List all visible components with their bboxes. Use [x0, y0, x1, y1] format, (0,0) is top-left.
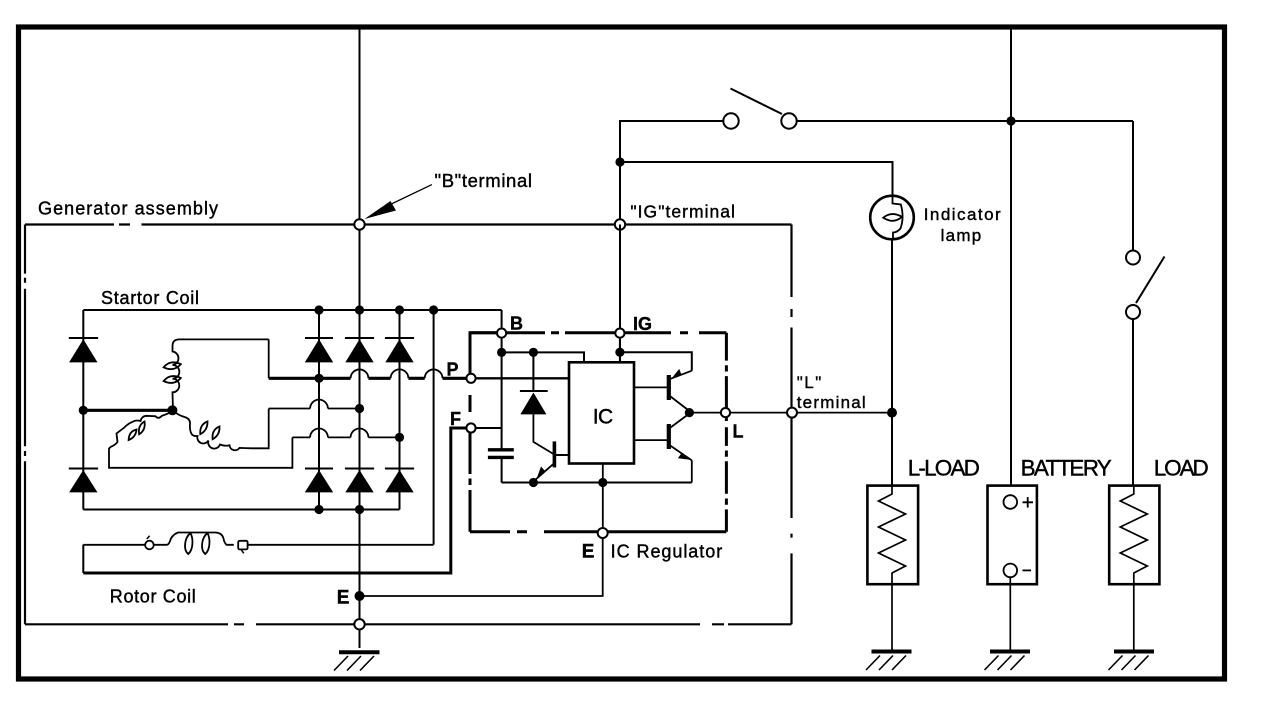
- node IG regulator: [615, 329, 624, 338]
- junction P line: [314, 374, 323, 383]
- wire IG internal drop: [619, 333, 621, 362]
- IG terminal: [615, 219, 625, 229]
- junction IG rail: [615, 348, 624, 357]
- B terminal: [354, 219, 364, 229]
- svg-text:Generator assembly: Generator assembly: [38, 199, 218, 219]
- junction B rail: [497, 348, 506, 357]
- star wire: [83, 409, 172, 412]
- wire lamp feed: [620, 162, 893, 196]
- diode D7: [385, 338, 414, 362]
- LOAD box: [1109, 486, 1159, 585]
- generator assembly box: [25, 225, 792, 625]
- svg-text:"B"terminal: "B"terminal: [435, 170, 533, 191]
- svg-text:L-LOAD: L-LOAD: [908, 456, 980, 481]
- junction bus node 2: [355, 305, 364, 314]
- svg-text:Rotor Coil: Rotor Coil: [110, 587, 196, 607]
- cap to bus: [501, 459, 503, 483]
- node L generator edge: [787, 408, 797, 418]
- zener diode: [520, 352, 554, 454]
- ground L-LOAD: [866, 652, 912, 671]
- wire B riser from top border to stator bus: [359, 29, 361, 310]
- transistor Q1: [533, 441, 569, 481]
- junction bottom bus node 2: [355, 505, 364, 514]
- node B regulator: [497, 329, 506, 338]
- P internal wire: [475, 377, 569, 379]
- wire ignition switch to junction: [797, 120, 1133, 122]
- phase line P (thick): [269, 377, 466, 380]
- F internal wire: [475, 427, 502, 429]
- svg-text:F: F: [450, 409, 461, 429]
- junction bus node 3: [395, 305, 404, 314]
- wire IG terminal to regulator: [619, 225, 621, 363]
- battery plus terminal: [1004, 495, 1018, 509]
- capacitor: [488, 450, 514, 458]
- junction zener rail: [529, 348, 538, 357]
- internal top rail: [502, 352, 584, 362]
- junction L / lamp: [887, 408, 897, 418]
- rectifier bottom bus: [83, 509, 399, 511]
- diode D2: [69, 469, 98, 493]
- junction left column: [79, 406, 88, 415]
- ground symbol generator: [334, 652, 380, 670]
- hop arcs on P line: [351, 369, 443, 378]
- wire W1 to P line: [268, 339, 270, 378]
- phase line 3: [292, 436, 399, 438]
- resistor LOAD: [1120, 486, 1147, 585]
- svg-text:B: B: [510, 314, 523, 334]
- IC bottom pin: [602, 464, 604, 483]
- svg-text:L: L: [733, 422, 744, 442]
- svg-text:BATTERY: BATTERY: [1021, 456, 1112, 481]
- BATTERY box: [988, 486, 1037, 585]
- winding W2 lower left: [109, 411, 292, 468]
- svg-text:E: E: [337, 588, 350, 609]
- diode D6: [345, 469, 374, 493]
- L wire: [689, 412, 892, 414]
- rotor return line (thick): [83, 428, 466, 573]
- B internal riser: [501, 333, 503, 448]
- winding W1 vertical: [164, 339, 269, 410]
- diode D8: [385, 469, 414, 493]
- wire lamp node to L-LOAD: [891, 413, 893, 486]
- stator bus: [83, 310, 501, 329]
- diode D5: [345, 338, 374, 362]
- svg-text:Startor Coil: Startor Coil: [101, 288, 199, 308]
- IC Regulator dash-dot box: [470, 333, 726, 532]
- resistor L-LOAD: [879, 486, 906, 585]
- svg-text:terminal: terminal: [797, 393, 866, 412]
- node E regulator: [598, 528, 608, 538]
- winding W3 lower right: [173, 409, 269, 451]
- svg-text:IG: IG: [633, 314, 652, 334]
- junction IG/lamp node: [615, 157, 624, 166]
- ground BATTERY: [985, 652, 1031, 671]
- indicator lamp: [870, 196, 914, 240]
- junction ground bus Q1: [529, 478, 538, 487]
- wire lamp to L node: [891, 239, 893, 412]
- rectifier column 2: [318, 310, 320, 510]
- svg-text:"IG"terminal: "IG"terminal: [630, 202, 735, 222]
- phase line 2: [269, 408, 360, 410]
- svg-text:Indicator: Indicator: [924, 205, 1001, 224]
- svg-text:IC: IC: [593, 405, 614, 428]
- left rectifier column: [82, 310, 84, 510]
- L node junction: [685, 408, 694, 417]
- wire battery to ground: [1009, 577, 1011, 651]
- junction bus node 4: [429, 305, 438, 314]
- junction switch/battery node: [1006, 116, 1015, 125]
- svg-text:P: P: [447, 360, 459, 380]
- IC right pins: [634, 386, 667, 388]
- wire battery feed riser from top border: [1010, 29, 1012, 496]
- B-P wire: [470, 333, 499, 374]
- diode D3: [305, 338, 333, 362]
- transistor Q2 (upper PNP): [667, 369, 692, 413]
- node F regulator: [466, 423, 475, 432]
- diode D1: [69, 338, 98, 362]
- IC box: [569, 362, 634, 463]
- wire LOAD to ground: [1133, 584, 1135, 651]
- svg-text:"L": "L": [797, 373, 822, 392]
- svg-text:E: E: [582, 541, 595, 562]
- IG rail to PNP emitter: [620, 352, 692, 371]
- regulator ground bus: [502, 482, 692, 484]
- junction phase3: [395, 433, 404, 442]
- field feed riser: [433, 310, 435, 545]
- junction E: [355, 591, 365, 601]
- rotor coil: [83, 533, 433, 555]
- node L regulator: [721, 408, 730, 417]
- wire load branch down: [1132, 121, 1134, 250]
- L-LOAD box: [867, 486, 918, 585]
- load switch: [1126, 251, 1165, 320]
- rotor left drop: [82, 545, 84, 573]
- ignition switch: [723, 89, 796, 129]
- rectifier column 4: [399, 310, 401, 510]
- ground circle on box edge: [354, 619, 364, 629]
- rectifier column 3: [359, 310, 361, 510]
- star point: [167, 405, 177, 415]
- diode D4: [305, 469, 333, 493]
- E column: [359, 510, 361, 649]
- arrow to B terminal: [383, 185, 432, 208]
- ground LOAD: [1109, 652, 1155, 671]
- svg-text:lamp: lamp: [941, 226, 982, 245]
- wire load switch to LOAD: [1132, 319, 1134, 486]
- svg-text:LOAD: LOAD: [1154, 456, 1209, 481]
- junction ground bus E: [598, 478, 607, 487]
- wire bus to E circle: [602, 483, 604, 529]
- transistor Q3 (lower NPN): [667, 414, 692, 483]
- E net wire: [360, 538, 603, 597]
- wire L-LOAD to ground: [891, 584, 893, 651]
- node P regulator: [466, 374, 475, 383]
- junction bus node 1: [314, 305, 323, 314]
- junction bottom bus node 1: [314, 505, 323, 514]
- junction phase2: [355, 404, 364, 413]
- wire ignition switch feed: [620, 121, 723, 224]
- svg-text:IC Regulator: IC Regulator: [611, 541, 723, 561]
- battery minus terminal: [1004, 564, 1018, 578]
